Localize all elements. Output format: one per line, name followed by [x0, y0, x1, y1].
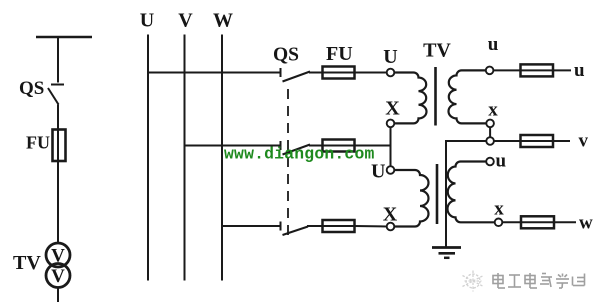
node junction (v takeoff / earth) [486, 137, 494, 145]
core TV2 [436, 164, 439, 224]
wire row2 tee down to U2 [390, 146, 392, 167]
svg-text:QS: QS [19, 78, 44, 99]
watermark text 电工电气学习 (glyph strokes) [493, 273, 585, 288]
wire v output [553, 140, 570, 142]
svg-text:QS: QS [273, 45, 299, 66]
wire blade to fuse row2 [309, 145, 323, 147]
svg-text:TV: TV [13, 252, 41, 274]
terminal x2 (TV2 secondary bottom) [495, 219, 503, 227]
winding TV2 secondary [448, 162, 495, 223]
wire through fuse row3 [323, 225, 355, 227]
svg-text:U: U [383, 46, 397, 68]
svg-text:www.diangon.com: www.diangon.com [224, 145, 375, 164]
wire through v fuse [521, 140, 554, 142]
winding TV1 secondary [449, 70, 487, 123]
wire through w fuse [521, 221, 554, 223]
terminal U1 (TV1 primary top) [387, 69, 395, 77]
svg-text:x: x [488, 100, 498, 121]
wire blade to fuse row1 [309, 72, 323, 74]
bus U vertical [147, 35, 149, 281]
wire blade to fuse [57, 105, 59, 131]
linkage dashed line of QS [287, 89, 289, 240]
wire fuse row3 to terminal X2 [355, 225, 387, 228]
wire through fuse row2 [323, 145, 355, 147]
wire left drop from busbar [57, 37, 59, 83]
switch QS row2 blade [283, 145, 311, 155]
wire row3 W-phase to switch [222, 225, 280, 227]
fuse FU row3 [323, 220, 355, 232]
wire through u fuse [521, 69, 554, 71]
QS row3 fixed contact tick [280, 222, 282, 231]
wire through left fuse [57, 130, 59, 161]
fuse FU (left column) [53, 130, 66, 162]
wire fuse to TV [57, 161, 59, 244]
svg-text:FU: FU [326, 43, 353, 65]
core TV1 [434, 67, 437, 126]
voltage transformer TV (left column, upper circle) [46, 243, 70, 267]
fuse FU secondary v [521, 135, 554, 147]
svg-text:v: v [579, 130, 589, 151]
fuse FU secondary w [521, 216, 554, 228]
wire blade to fuse row3 [307, 225, 323, 227]
fuse FU secondary u [521, 64, 554, 76]
terminal X2 (TV2 primary bottom) [387, 223, 395, 231]
svg-text:X: X [383, 203, 398, 225]
svg-text:u: u [488, 34, 499, 55]
svg-text:w: w [579, 213, 593, 234]
wire junction jog to earth drop [446, 141, 486, 247]
winding TV1 primary [394, 73, 426, 124]
wire u output [553, 69, 571, 71]
QS left fixed contact tick [51, 84, 64, 86]
terminal U2 (TV2 primary top) [387, 166, 395, 174]
svg-text:V: V [51, 266, 65, 287]
busbar (left incoming supply bar) [36, 36, 92, 39]
svg-text:V: V [178, 10, 193, 32]
ground [432, 248, 461, 258]
wire fuse to terminal U row1 [355, 72, 387, 74]
svg-text:u: u [496, 151, 507, 172]
watermark logo snowflake [463, 271, 484, 292]
switch QS row3 blade [283, 227, 309, 236]
svg-text:V: V [51, 246, 65, 267]
QS row1 fixed contact tick [280, 68, 282, 77]
fuse FU row2 [323, 140, 355, 152]
wire through fuse row1 [323, 72, 355, 74]
wire X1 down to row2 tee [390, 127, 392, 145]
wire w output [554, 221, 576, 223]
terminal x (TV1 secondary bottom) [486, 120, 494, 128]
terminal X1 (TV1 primary bottom) [387, 120, 395, 128]
svg-text:u: u [574, 60, 585, 81]
wire x down to junction node [489, 127, 491, 137]
svg-text:TV: TV [423, 39, 451, 61]
QS row2 fixed contact tick [280, 141, 282, 150]
svg-text:U: U [140, 10, 154, 32]
svg-text:X: X [385, 97, 400, 119]
wire row1 U-phase to switch [148, 72, 280, 74]
svg-text:x: x [494, 199, 504, 220]
bus V vertical [184, 35, 186, 281]
switch QS row1 blade [283, 72, 311, 82]
wire tail below TV [57, 288, 59, 303]
svg-text:FU: FU [26, 133, 50, 153]
wire u to fuse (secondary u row) [493, 69, 520, 71]
svg-text:U: U [371, 161, 385, 183]
wire fuse row2 to tee node [355, 145, 391, 147]
voltage transformer TV (left column, lower circle) [46, 264, 70, 288]
winding TV2 primary [394, 170, 428, 227]
terminal u2 (TV2 secondary top) [486, 158, 494, 166]
terminal u (TV1 secondary top) [486, 67, 494, 75]
bus W vertical [221, 35, 223, 281]
svg-text:W: W [213, 10, 233, 32]
wire junction to fuse (secondary v row) [494, 140, 521, 142]
fuse FU row1 [323, 67, 355, 79]
wire row2 V-phase to switch [185, 145, 281, 147]
switch QS (left column) blade [48, 88, 59, 105]
wire x2 to fuse (secondary w row) [502, 221, 521, 223]
